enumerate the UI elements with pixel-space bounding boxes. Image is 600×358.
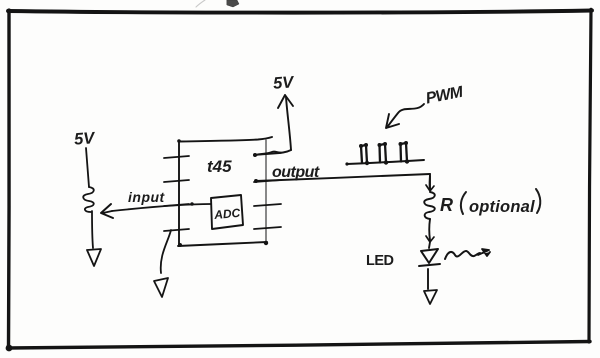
svg-text:LED: LED xyxy=(366,253,394,269)
svg-text:ADC: ADC xyxy=(213,206,241,222)
svg-text:optional: optional xyxy=(469,198,535,216)
svg-text:5V: 5V xyxy=(273,73,296,93)
svg-text:R: R xyxy=(440,195,454,215)
svg-text:output: output xyxy=(272,164,320,181)
svg-text:input: input xyxy=(128,189,166,205)
svg-text:5V: 5V xyxy=(73,129,96,149)
svg-text:t45: t45 xyxy=(207,157,232,176)
